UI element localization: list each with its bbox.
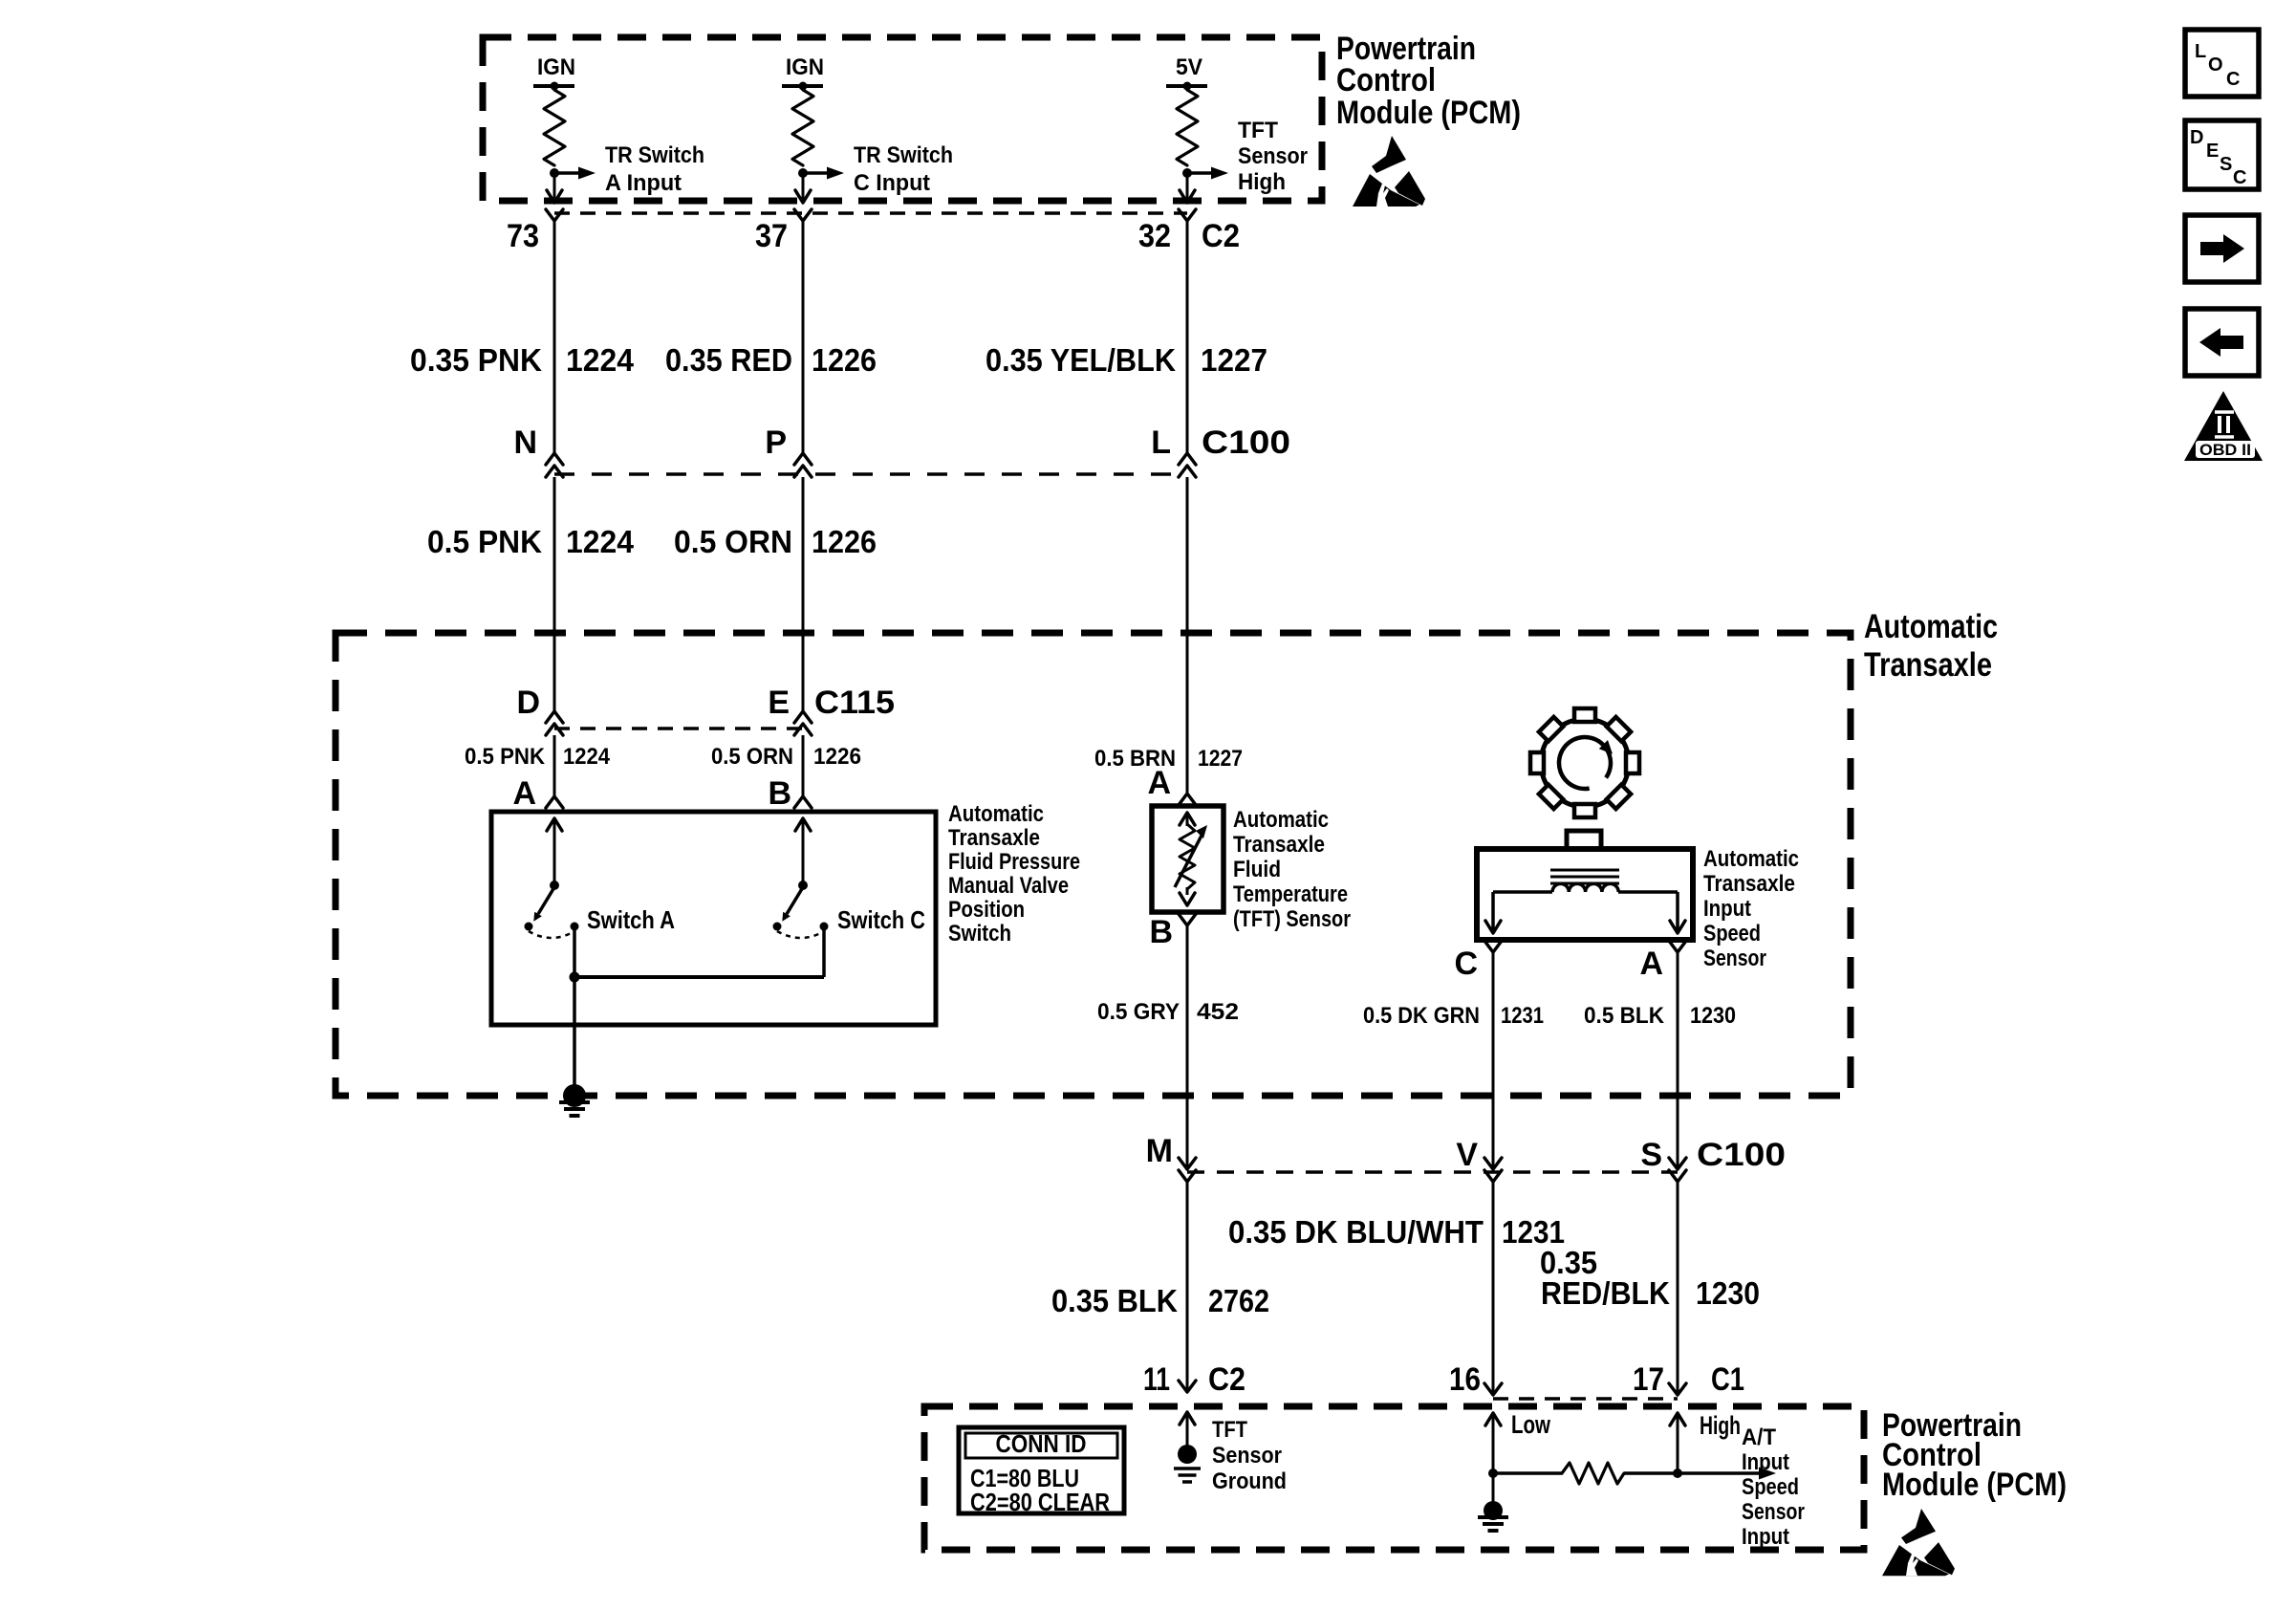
- connector pin 16 (wire 4): [1484, 1383, 1502, 1395]
- ground (switch common): [559, 1084, 590, 1116]
- wire 2 (ORN) C115 to switch pin B: [802, 735, 805, 796]
- switch A travel arc (dashed): [529, 931, 574, 938]
- svg-text:Automatic: Automatic: [1703, 846, 1799, 872]
- switch A throw contact dot: [525, 923, 533, 931]
- svg-text:L: L: [1151, 424, 1171, 461]
- label: TFT Sensor Ground: [1212, 1417, 1287, 1494]
- TFT thermistor symbol: [1175, 813, 1207, 905]
- wire 1 (PNK) C115 to switch pin A: [553, 735, 556, 796]
- switch A common dot (Switch A): [571, 923, 579, 931]
- svg-text:P: P: [765, 424, 787, 461]
- ground (TFT sensor): [1174, 1469, 1201, 1482]
- label connector C100 (lower): [1697, 1137, 1786, 1173]
- TFT sensor pin B connector: [1179, 914, 1196, 925]
- connector C100 (lower) dashed line: [1187, 1170, 1678, 1174]
- speed sensor core lines: [1550, 870, 1619, 883]
- connector pin 17 (wire 5): [1669, 1383, 1686, 1395]
- svg-text:E: E: [2206, 141, 2219, 162]
- label pin M: [1146, 1133, 1173, 1169]
- label pin D: [516, 685, 540, 721]
- svg-text:Switch: Switch: [948, 921, 1011, 946]
- svg-text:C1: C1: [1711, 1361, 1744, 1398]
- svg-text:Module (PCM): Module (PCM): [1882, 1467, 2067, 1503]
- svg-text:Speed: Speed: [1742, 1474, 1799, 1500]
- connector pin L (wire 3): [1179, 453, 1196, 477]
- svg-text:17: 17: [1633, 1361, 1664, 1398]
- svg-text:32: 32: [1138, 218, 1171, 254]
- Automatic Transaxle dashed box: [336, 633, 1851, 1096]
- wire 4 (DK BLU/WHT) V to pin 16: [1492, 1182, 1495, 1395]
- wire 3 (YEL/BLK) C100 into transaxle: [1186, 477, 1189, 794]
- svg-text:Input: Input: [1703, 896, 1751, 922]
- svg-text:Ground: Ground: [1212, 1469, 1287, 1494]
- wire: low junction to ground: [1492, 1473, 1495, 1503]
- wire: wire 3 down to box edge with open arrow: [1180, 173, 1195, 203]
- svg-text:1226: 1226: [812, 342, 877, 378]
- node: low junction dot: [1488, 1469, 1498, 1478]
- svg-text:Module (PCM): Module (PCM): [1336, 95, 1521, 131]
- svg-text:E: E: [768, 685, 790, 721]
- svg-text:A Input: A Input: [605, 170, 682, 196]
- svg-text:C115: C115: [814, 685, 895, 721]
- switch C pivot dot: [798, 881, 808, 890]
- connector C2 dashed line: [554, 211, 1187, 215]
- label: A/T Input Speed Sensor Input: [1742, 1425, 1805, 1550]
- label: TR Switch A Input: [605, 142, 704, 196]
- resistor R1 (pull-up, wire 1): [544, 90, 565, 165]
- label wire 3: 0.35 YEL/BLK 1227: [986, 342, 1267, 378]
- svg-text:16: 16: [1449, 1361, 1481, 1398]
- svg-text:A/T: A/T: [1742, 1425, 1776, 1450]
- switch A input arrow: [547, 818, 562, 885]
- label: TR Switch C Input: [854, 142, 953, 196]
- CONN ID table: [959, 1427, 1124, 1516]
- label wire 4: 0.5 DK GRN 1231: [1363, 1003, 1544, 1029]
- svg-text:0.5 PNK: 0.5 PNK: [427, 524, 542, 559]
- svg-text:CONN ID: CONN ID: [996, 1429, 1087, 1458]
- switch C throw contact dot: [773, 923, 782, 931]
- svg-text:5V: 5V: [1176, 54, 1202, 80]
- label wire 2: 0.5 ORN 1226: [674, 524, 877, 559]
- connector pin 11 (wire 3): [1179, 1381, 1196, 1392]
- switch C input arrow: [795, 818, 811, 885]
- wire: switch output to ground: [573, 977, 576, 1096]
- switch pin A connector: [546, 796, 563, 808]
- speed sensor pin C connector: [1484, 941, 1502, 952]
- svg-text:0.5 PNK: 0.5 PNK: [465, 744, 546, 770]
- label pin 32: [1138, 218, 1171, 254]
- svg-text:452: 452: [1197, 999, 1239, 1025]
- svg-text:Switch C: Switch C: [837, 905, 925, 934]
- label pin 17: [1633, 1361, 1664, 1398]
- wire: wire 2 down to box edge with open arrow: [795, 173, 811, 203]
- wire 3 (BLK) M to pin 11: [1186, 1182, 1189, 1392]
- svg-text:C2: C2: [1202, 218, 1240, 254]
- label connector C2 (bottom): [1208, 1361, 1245, 1398]
- wire: wire 1 down to box edge with open arrow: [547, 173, 562, 203]
- svg-text:0.5 ORN: 0.5 ORN: [674, 524, 792, 559]
- label: Automatic Transaxle Fluid Temperature (TFT) Sensor: [1233, 807, 1351, 932]
- svg-text:(TFT) Sensor: (TFT) Sensor: [1233, 906, 1351, 932]
- label wire 4: 0.35 DK BLU/WHT 1231: [1228, 1214, 1565, 1250]
- power rail IGN (wire 1): [533, 82, 574, 91]
- wire 3 (GRY) TFT B down: [1186, 925, 1189, 1169]
- label connector C2: [1202, 218, 1240, 254]
- svg-text:C: C: [2233, 167, 2246, 188]
- wire 3 (YEL/BLK) C2 to C100: [1186, 221, 1189, 453]
- ground (speed sensor low): [1478, 1501, 1508, 1531]
- speed sensor mount pedestal: [1567, 831, 1601, 849]
- wire 5 (BLK) down: [1677, 952, 1679, 1169]
- svg-text:V: V: [1456, 1137, 1478, 1173]
- node: junction dot wire 3: [1182, 168, 1192, 178]
- connector pin 73 (wire 1): [546, 209, 563, 221]
- label pin A: [512, 775, 536, 812]
- speed sensor coil: [1552, 883, 1618, 892]
- svg-text:2762: 2762: [1208, 1283, 1269, 1318]
- wire 2 (RED) C2 to C100: [802, 221, 805, 453]
- connector pin E (wire 2): [794, 711, 812, 735]
- node: junction dot wire 2: [798, 168, 808, 178]
- svg-text:0.5 BLK: 0.5 BLK: [1584, 1003, 1665, 1029]
- label: Switch A: [587, 905, 675, 934]
- switch A pivot dot: [550, 881, 559, 890]
- svg-text:Speed: Speed: [1703, 921, 1761, 946]
- wire 5 (RED/BLK) S to pin 17: [1677, 1182, 1679, 1395]
- connector pin P (wire 2): [794, 453, 812, 477]
- svg-text:Automatic: Automatic: [948, 801, 1044, 827]
- svg-text:Control: Control: [1336, 62, 1436, 98]
- icon: OBD II triangle: [2184, 391, 2263, 461]
- svg-text:High: High: [1238, 169, 1286, 195]
- connector pin V (wire 4): [1484, 1158, 1502, 1182]
- wire 1 (PNK) C100 to C115: [553, 477, 556, 711]
- svg-text:Low: Low: [1511, 1410, 1551, 1439]
- label pin 37: [755, 218, 788, 254]
- wire 1 (PNK) C2 to C100: [553, 221, 556, 453]
- label pin 16: [1449, 1361, 1481, 1398]
- speed sensor box: [1477, 849, 1693, 940]
- svg-text:Sensor: Sensor: [1703, 946, 1766, 971]
- svg-text:A: A: [1147, 765, 1171, 801]
- svg-text:TFT: TFT: [1238, 118, 1278, 143]
- svg-text:1227: 1227: [1198, 746, 1243, 772]
- svg-text:11: 11: [1143, 1361, 1170, 1398]
- label pin C: [1454, 946, 1478, 982]
- switch box (fluid pressure manual valve position switch): [491, 812, 936, 1025]
- node: high junction dot: [1673, 1469, 1682, 1478]
- label IGN (wire 2): [786, 54, 824, 80]
- label connector C115: [814, 685, 895, 721]
- svg-text:0.35 YEL/BLK: 0.35 YEL/BLK: [986, 342, 1176, 378]
- wire: junction to PCM internal arrow (wire 3): [1187, 167, 1228, 180]
- svg-text:1226: 1226: [813, 744, 861, 770]
- svg-text:1224: 1224: [566, 524, 635, 559]
- TFT sensor ground branch: [1180, 1412, 1195, 1447]
- label pin 11: [1143, 1361, 1170, 1398]
- svg-text:Transaxle: Transaxle: [948, 825, 1040, 851]
- label pin B: [768, 775, 791, 812]
- svg-text:S: S: [2220, 154, 2232, 175]
- svg-text:C2: C2: [1208, 1361, 1245, 1398]
- svg-text:OBD II: OBD II: [2199, 441, 2251, 459]
- label 5V: [1176, 54, 1202, 80]
- label pin A (speed sensor): [1639, 946, 1663, 982]
- node: junction dot wire 1: [550, 168, 559, 178]
- power rail 5V (wire 3): [1166, 82, 1207, 91]
- svg-text:Fluid: Fluid: [1233, 857, 1281, 882]
- TFT sensor pin A connector: [1179, 794, 1196, 805]
- svg-text:Switch A: Switch A: [587, 905, 675, 934]
- label IGN (wire 1): [537, 54, 575, 80]
- label wire 3: 0.5 BRN 1227 (small): [1094, 746, 1243, 772]
- label wire 3: 0.5 GRY 452: [1097, 999, 1239, 1025]
- svg-text:C: C: [2226, 69, 2240, 90]
- connector pin D (wire 1): [546, 711, 563, 735]
- label pin L: [1151, 424, 1171, 461]
- svg-text:Temperature: Temperature: [1233, 881, 1348, 907]
- label pin V: [1456, 1137, 1478, 1173]
- label connector C1: [1711, 1361, 1744, 1398]
- svg-text:0.35 DK BLU/WHT: 0.35 DK BLU/WHT: [1228, 1214, 1484, 1250]
- svg-text:C100: C100: [1697, 1137, 1786, 1173]
- svg-text:1230: 1230: [1690, 1003, 1736, 1029]
- svg-text:S: S: [1640, 1137, 1662, 1173]
- svg-text:0.5 GRY: 0.5 GRY: [1097, 999, 1180, 1025]
- label: Powertrain Control Module (PCM) bottom right: [1882, 1407, 2067, 1503]
- icon: back arrow button: [2185, 309, 2259, 376]
- svg-text:N: N: [513, 424, 537, 461]
- svg-text:37: 37: [755, 218, 788, 254]
- svg-text:Manual Valve: Manual Valve: [948, 873, 1069, 899]
- wire 4 (DK GRN) down: [1492, 952, 1495, 1169]
- speed sensor internal wiring: [1485, 892, 1685, 933]
- svg-text:73: 73: [507, 218, 539, 254]
- label: Automatic Transaxle Fluid Pressure Manual Valve Position Switch: [948, 801, 1080, 946]
- svg-text:0.5 DK GRN: 0.5 DK GRN: [1363, 1003, 1480, 1029]
- svg-text:C: C: [1454, 946, 1478, 982]
- svg-text:B: B: [1149, 914, 1173, 950]
- ESD symbol (bottom PCM): [1882, 1509, 1955, 1576]
- connector C1 dashed line: [1493, 1397, 1678, 1401]
- svg-text:C Input: C Input: [854, 170, 930, 196]
- speed sensor pin A connector: [1669, 941, 1686, 952]
- svg-text:1226: 1226: [812, 524, 877, 559]
- svg-text:IGN: IGN: [537, 54, 575, 80]
- label: High: [1700, 1411, 1741, 1440]
- svg-text:1227: 1227: [1201, 342, 1267, 378]
- svg-text:Transaxle: Transaxle: [1233, 832, 1325, 858]
- connector pin 37 (wire 2): [794, 209, 812, 221]
- wire: junction to PCM internal arrow (wire 2): [803, 167, 844, 180]
- resistor R3 (pull-up, wire 3): [1177, 90, 1198, 165]
- icon: LOC button: [2185, 30, 2259, 97]
- svg-text:TR Switch: TR Switch: [605, 142, 704, 168]
- svg-text:Sensor: Sensor: [1238, 143, 1308, 169]
- switch C blade: [782, 887, 803, 922]
- svg-text:B: B: [768, 775, 791, 812]
- svg-text:1231: 1231: [1501, 1003, 1544, 1029]
- svg-text:High: High: [1700, 1411, 1741, 1440]
- wire: common link to switch C: [574, 928, 824, 977]
- label connector C100 (top): [1202, 424, 1290, 461]
- svg-text:Fluid Pressure: Fluid Pressure: [948, 849, 1080, 875]
- PCM box (top) dashed outline: [483, 37, 1322, 201]
- svg-text:C2=80 CLEAR: C2=80 CLEAR: [970, 1488, 1110, 1516]
- svg-text:1224: 1224: [563, 744, 611, 770]
- connector C115 dashed line: [554, 727, 803, 730]
- label wire 5: 0.35 RED/BLK 1230: [1540, 1245, 1760, 1311]
- label: Powertrain Control Module (PCM) top right: [1336, 31, 1521, 131]
- svg-text:TFT: TFT: [1212, 1417, 1247, 1443]
- wire: switch A common down: [573, 928, 576, 977]
- label wire 1: 0.5 PNK 1224 (small): [465, 744, 611, 770]
- connector pin S (wire 5): [1669, 1158, 1686, 1182]
- label: Switch C: [837, 905, 925, 934]
- speed sensor low input arrow: [1485, 1413, 1501, 1473]
- icon: forward arrow button: [2185, 215, 2259, 282]
- label pin 73: [507, 218, 539, 254]
- label: Automatic Transaxle Input Speed Sensor: [1703, 846, 1799, 971]
- svg-text:Input: Input: [1742, 1449, 1789, 1475]
- resistor (PCM speed sensor input): [1493, 1463, 1678, 1484]
- switch C travel arc (dashed): [777, 931, 824, 938]
- svg-text:A: A: [512, 775, 536, 812]
- connector pin 32 (wire 3): [1179, 209, 1196, 221]
- switch C common dot (Switch C): [820, 923, 829, 931]
- ESD symbol (top PCM): [1353, 136, 1425, 207]
- svg-text:M: M: [1146, 1133, 1173, 1169]
- svg-text:RED/BLK: RED/BLK: [1541, 1275, 1670, 1311]
- switch A blade: [533, 887, 554, 922]
- svg-text:Sensor: Sensor: [1212, 1443, 1282, 1469]
- svg-text:O: O: [2208, 54, 2223, 76]
- svg-text:0.35 RED: 0.35 RED: [665, 342, 792, 378]
- TFT ground dot: [1178, 1445, 1197, 1464]
- wire 2 (ORN) C100 to C115: [802, 477, 805, 711]
- label pin P: [765, 424, 787, 461]
- connector C100 dashed line: [554, 472, 1187, 476]
- label TFT pin B: [1149, 914, 1173, 950]
- label TFT pin A: [1147, 765, 1171, 801]
- label wire 5: 0.5 BLK 1230: [1584, 1003, 1736, 1029]
- svg-text:Input: Input: [1742, 1524, 1789, 1550]
- label wire 2: 0.5 ORN 1226 (small): [711, 744, 861, 770]
- svg-text:Automatic: Automatic: [1233, 807, 1329, 833]
- TFT sensor box: [1152, 806, 1224, 912]
- node: switch output junction: [570, 972, 580, 983]
- label wire 1: 0.35 PNK 1224: [410, 342, 635, 378]
- svg-text:IGN: IGN: [786, 54, 824, 80]
- wire: junction to PCM internal arrow (wire 1): [554, 167, 596, 180]
- svg-text:D: D: [516, 685, 540, 721]
- svg-text:1230: 1230: [1696, 1275, 1760, 1311]
- power rail IGN (wire 2): [782, 82, 823, 91]
- svg-text:Sensor: Sensor: [1742, 1499, 1805, 1525]
- svg-text:0.35 PNK: 0.35 PNK: [410, 342, 542, 378]
- svg-text:D: D: [2190, 127, 2203, 148]
- label wire 2: 0.35 RED 1226: [665, 342, 877, 378]
- svg-text:1224: 1224: [566, 342, 635, 378]
- svg-text:Position: Position: [948, 897, 1025, 923]
- icon: DESC button: [2185, 120, 2259, 189]
- svg-text:A: A: [1639, 946, 1663, 982]
- label wire 1: 0.5 PNK 1224: [427, 524, 635, 559]
- resistor R2 (pull-up, wire 2): [792, 90, 813, 165]
- label: Automatic Transaxle (box label): [1864, 608, 1998, 684]
- label wire 3: 0.35 BLK 2762: [1051, 1283, 1269, 1318]
- svg-text:L: L: [2195, 41, 2206, 62]
- PCM box (bottom) dashed outline: [924, 1406, 1864, 1550]
- svg-text:Transaxle: Transaxle: [1703, 871, 1795, 897]
- label pin E: [768, 685, 790, 721]
- wire: junction to A/T input arrow: [1678, 1468, 1776, 1480]
- connector pin M (wire 3): [1179, 1158, 1196, 1182]
- label: Low: [1511, 1410, 1551, 1439]
- svg-text:Transaxle: Transaxle: [1864, 646, 1992, 684]
- connector pin N (wire 1): [546, 453, 563, 477]
- svg-text:0.35 BLK: 0.35 BLK: [1051, 1283, 1178, 1318]
- label pin N: [513, 424, 537, 461]
- speed sensor high input arrow: [1670, 1413, 1685, 1473]
- svg-text:Automatic: Automatic: [1864, 608, 1998, 645]
- gear icon (speed sensor reluctor): [1530, 708, 1639, 817]
- label: TFT Sensor High: [1238, 118, 1308, 195]
- switch pin B connector: [794, 796, 812, 808]
- svg-text:C100: C100: [1202, 424, 1290, 461]
- rotation arrow inside gear: [1559, 737, 1613, 789]
- label pin S: [1640, 1137, 1662, 1173]
- svg-text:0.5 ORN: 0.5 ORN: [711, 744, 793, 770]
- svg-text:TR Switch: TR Switch: [854, 142, 953, 168]
